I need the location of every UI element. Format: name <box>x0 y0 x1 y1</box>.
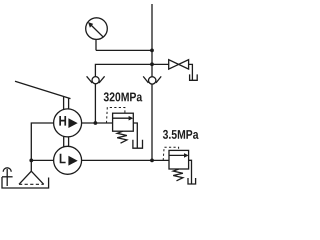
tank T1 <box>133 140 143 149</box>
relief valve RV2 spring <box>173 169 183 181</box>
wire main vertical lower <box>151 84 153 160</box>
wire RV2 drain <box>189 160 192 184</box>
strainer S1 <box>19 171 44 184</box>
breather B1 <box>2 168 13 186</box>
shaft between pumps <box>64 137 69 147</box>
label 3.5MPa <box>163 130 199 139</box>
lever control arm <box>15 81 71 109</box>
node junction L-main <box>150 159 154 163</box>
relief valve RV1 spring <box>117 131 127 143</box>
wire line A gauge to main vertical <box>96 49 152 51</box>
wire RV1 drain <box>133 123 137 148</box>
check valve CV1 <box>87 76 105 83</box>
node junction B <box>150 62 154 66</box>
tank T3 <box>190 74 198 80</box>
relief valve RV2 pilot dashed <box>163 147 178 160</box>
reservoir tank T4 <box>2 177 49 188</box>
pump P1 H <box>54 109 82 137</box>
node junction A <box>150 49 154 53</box>
tank T2 <box>188 178 196 184</box>
wire L pump suction <box>31 159 53 161</box>
wire gauge stem <box>95 39 97 50</box>
check valve CV2 <box>143 76 161 84</box>
pressure gauge G1 <box>86 18 108 40</box>
wire H pump suction <box>31 123 53 171</box>
wire line B high-pressure header <box>95 64 168 76</box>
wire valve V1 to tank T3 <box>189 64 193 80</box>
relief valve RV1 pilot dashed <box>107 108 125 124</box>
relief valve RV2 body <box>169 150 189 169</box>
label 320MPa <box>104 92 143 101</box>
shutoff valve V1 <box>169 60 189 69</box>
node junction H <box>94 121 98 125</box>
wire CV1 to H line <box>94 84 96 123</box>
wire H pump outlet <box>82 122 113 124</box>
wire main vertical outlet <box>151 4 153 77</box>
wire L pump outlet <box>82 159 169 161</box>
relief valve RV1 body <box>113 113 134 131</box>
pump P2 L <box>54 146 82 174</box>
node junction L-suction <box>29 159 33 163</box>
